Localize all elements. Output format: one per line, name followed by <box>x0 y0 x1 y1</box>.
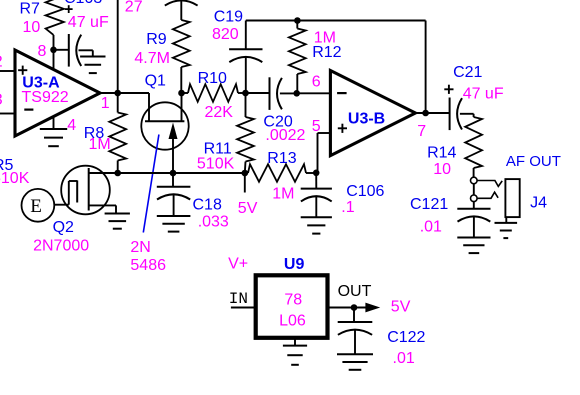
wire U3-B output <box>415 112 449 114</box>
ground (C103) <box>80 56 105 58</box>
svg-text:6: 6 <box>312 74 321 91</box>
resistor R11 <box>245 93 247 117</box>
node Q2 drain/R8 <box>114 170 121 177</box>
ground (U9) <box>283 345 307 347</box>
wire pin3 input <box>0 113 16 115</box>
plus input sign U3-A <box>18 69 27 71</box>
svg-text:TS922: TS922 <box>22 89 69 106</box>
svg-text:1M: 1M <box>272 186 294 203</box>
svg-text:R9: R9 <box>146 31 167 48</box>
svg-text:510K: 510K <box>0 170 30 187</box>
svg-text:AF OUT: AF OUT <box>506 153 561 170</box>
svg-text:10: 10 <box>23 19 41 36</box>
svg-text:820: 820 <box>212 26 239 43</box>
ground (pin 4) <box>40 128 67 130</box>
ground (Q2 source) <box>105 213 130 215</box>
svg-text:C122: C122 <box>387 329 425 346</box>
svg-text:2: 2 <box>0 54 3 71</box>
node output U3-A <box>114 90 121 97</box>
svg-text:.033: .033 <box>198 213 229 230</box>
resistor R14 <box>473 114 475 117</box>
wire pin6 <box>297 92 331 94</box>
wire C21 to R14 <box>460 113 474 115</box>
wire E to gate <box>54 204 69 206</box>
node OUT junction <box>351 304 358 311</box>
wire OUT <box>328 307 367 309</box>
node pin8 junction <box>50 47 57 54</box>
transistor Q1 <box>141 102 188 149</box>
terminal E circle <box>22 189 55 222</box>
node R10/C19/R11 junction <box>242 90 249 97</box>
ground (C121) <box>457 237 490 239</box>
svg-text:Q1: Q1 <box>145 73 166 90</box>
regulator U9 <box>256 275 328 338</box>
wire C103 to ground <box>79 49 93 51</box>
capacitor C121 <box>473 202 475 209</box>
svg-text:3: 3 <box>0 92 3 109</box>
resistor R12 <box>296 21 298 29</box>
node R9/R10 junction <box>178 90 185 97</box>
wire top rail <box>246 20 426 22</box>
svg-text:C19: C19 <box>214 8 243 25</box>
wire bottom rail <box>118 172 248 174</box>
svg-text:C106: C106 <box>346 183 384 200</box>
svg-text:R14: R14 <box>427 145 456 162</box>
svg-text:L06: L06 <box>279 313 306 330</box>
wire J4 to ground <box>505 217 507 223</box>
svg-text:OUT: OUT <box>338 283 372 300</box>
jack ring contact <box>477 192 498 198</box>
pin 4 stub <box>53 117 55 129</box>
node U3-B output <box>422 110 429 117</box>
wire R10 node to C20 <box>246 92 270 94</box>
svg-text:78: 78 <box>284 292 302 309</box>
node R11/5V/R13 <box>242 170 249 177</box>
svg-text:C18: C18 <box>193 197 222 214</box>
wire IN stub <box>231 307 256 309</box>
wire 5V stub <box>244 173 246 193</box>
svg-text:.01: .01 <box>393 350 415 367</box>
svg-text:R12: R12 <box>312 44 341 61</box>
svg-text:1: 1 <box>101 95 110 112</box>
node pin6 junction <box>293 90 300 97</box>
svg-text:10: 10 <box>433 161 451 178</box>
svg-text:C121: C121 <box>410 196 448 213</box>
svg-text:V+: V+ <box>228 256 248 273</box>
svg-text:5486: 5486 <box>130 257 166 274</box>
resistor R7 <box>46 0 64 35</box>
svg-text:Q2: Q2 <box>53 219 74 236</box>
ground (C18) <box>157 215 191 217</box>
op-amp U3-A <box>15 50 100 136</box>
svg-text:R10: R10 <box>198 70 227 87</box>
jack contact circle 2 <box>471 195 478 202</box>
capacitor C20 <box>269 77 271 110</box>
leader line 2N5486 <box>143 135 159 233</box>
svg-text:U3-B: U3-B <box>348 110 385 127</box>
svg-text:E: E <box>30 196 42 217</box>
capacitor C106 <box>315 173 317 189</box>
wire hop arc (top) <box>165 0 198 5</box>
svg-text:C103: C103 <box>64 0 102 7</box>
resistor R8 <box>117 93 119 113</box>
wire top to output node <box>117 0 119 93</box>
svg-text:4: 4 <box>67 117 76 134</box>
connector J4 <box>505 179 519 217</box>
svg-text:2N: 2N <box>130 239 150 256</box>
capacitor C19 <box>245 21 247 50</box>
minus input sign U3-A <box>24 108 33 110</box>
wire pin2 input <box>0 70 16 72</box>
svg-text:.0022: .0022 <box>265 127 305 144</box>
svg-text:J4: J4 <box>530 194 547 211</box>
ground (C122) <box>337 353 373 355</box>
svg-text:5V: 5V <box>238 200 258 217</box>
jack contact circle 1 <box>471 177 478 184</box>
node R12 top <box>294 17 301 24</box>
svg-text:510K: 510K <box>197 156 235 173</box>
capacitor C103 <box>68 34 70 67</box>
svg-text:4.7M: 4.7M <box>134 50 170 67</box>
svg-text:47 uF: 47 uF <box>463 85 504 102</box>
wire pin8 to C103 <box>54 49 69 51</box>
wire pin5 <box>318 132 331 134</box>
node Q1 gate/C18 <box>170 170 177 177</box>
capacitor C122 <box>353 308 355 323</box>
jack tip contact <box>477 181 502 187</box>
wire U3-A output <box>100 92 149 94</box>
svg-text:R13: R13 <box>267 150 296 167</box>
svg-text:U9: U9 <box>284 256 305 273</box>
capacitor C21 <box>449 98 451 131</box>
svg-text:22K: 22K <box>205 104 234 121</box>
svg-text:7: 7 <box>417 123 426 140</box>
resistor R9 <box>180 1 182 21</box>
plus input sign U3-B <box>338 127 347 129</box>
svg-text:IN: IN <box>229 290 248 308</box>
arrow 5V out <box>365 303 380 313</box>
node R13/C106/pin5 <box>313 170 320 177</box>
ground (C106) <box>301 216 332 218</box>
plus sign C103 <box>65 8 73 10</box>
wire pin8 down <box>53 50 55 70</box>
capacitor C18 <box>172 173 174 187</box>
svg-text:C21: C21 <box>453 64 482 81</box>
svg-text:R7: R7 <box>20 1 41 18</box>
svg-text:5V: 5V <box>391 299 411 316</box>
transistor Q2 <box>61 166 110 215</box>
svg-text:8: 8 <box>38 43 47 60</box>
minus input sign U3-B <box>337 92 347 94</box>
svg-text:47 uF: 47 uF <box>68 14 109 31</box>
plus sign C21 <box>444 88 453 90</box>
resistor R10 <box>182 92 189 94</box>
op-amp U3-B <box>330 71 415 156</box>
svg-text:1M: 1M <box>89 136 111 153</box>
wire U9 ground stub <box>294 338 296 346</box>
svg-text:.01: .01 <box>420 218 442 235</box>
wire between contacts <box>473 184 475 195</box>
svg-text:.1: .1 <box>341 199 354 216</box>
svg-text:27: 27 <box>125 0 143 15</box>
resistor R13 <box>248 164 306 182</box>
svg-text:2N7000: 2N7000 <box>33 238 89 255</box>
ground (J4) <box>495 222 518 224</box>
wire C20 to pin6 node <box>280 92 297 94</box>
